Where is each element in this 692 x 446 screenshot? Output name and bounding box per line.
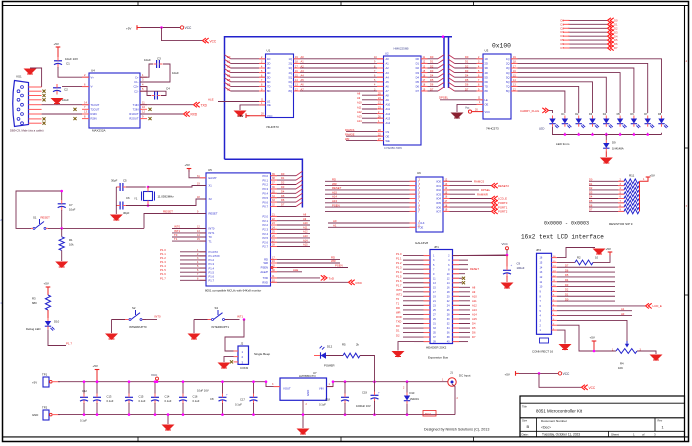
power +5V to U1 VCC pin	[238, 113, 266, 119]
svg-text:3D: 3D	[267, 66, 270, 70]
svg-text:D3: D3	[281, 185, 285, 189]
svg-text:C2+: C2+	[133, 85, 138, 89]
svg-text:10: 10	[595, 256, 599, 260]
svg-text:D6: D6	[561, 42, 565, 46]
svg-text:DC2: DC2	[425, 412, 431, 416]
svg-text:C6: C6	[126, 196, 130, 200]
ground at U3 OE maroon	[451, 113, 464, 120]
resistor R1	[59, 228, 74, 261]
off-page connector VCC	[203, 38, 217, 43]
svg-text:D12: D12	[327, 344, 333, 348]
wire LCD_E	[557, 303, 662, 308]
wire pot to ground	[637, 351, 656, 354]
U6 left wires	[325, 178, 421, 228]
wire U3 OE to ground	[457, 101, 483, 112]
svg-text:1D: 1D	[267, 57, 270, 61]
svg-text:Title: Title	[522, 404, 527, 408]
LED D0 carry	[549, 116, 559, 129]
svg-text:0.1uF: 0.1uF	[319, 402, 326, 406]
svg-text:WR: WR	[264, 261, 269, 265]
svg-text:R2: R2	[577, 256, 581, 260]
svg-text:1N4148A: 1N4148A	[612, 146, 624, 150]
svg-text:RESET: RESET	[470, 267, 479, 271]
svg-text:VOUT: VOUT	[283, 387, 291, 391]
wire GND bottom rail	[58, 414, 455, 416]
junction dot INT1	[243, 318, 246, 321]
VCC pin of U3	[465, 106, 483, 114]
svg-text:A0: A0	[621, 312, 625, 316]
svg-text:1D: 1D	[485, 57, 488, 61]
svg-text:P1.0: P1.0	[396, 252, 402, 256]
power +5V arrow on rail	[93, 364, 100, 382]
resistor R5	[342, 342, 360, 358]
svg-text:10k: 10k	[69, 243, 74, 247]
svg-text:I/O5: I/O5	[436, 201, 441, 205]
svg-text:Single Beep: Single Beep	[254, 352, 271, 356]
svg-text:A11: A11	[386, 107, 391, 111]
svg-text:C1: C1	[66, 62, 70, 66]
wires P2 address	[271, 213, 311, 247]
ground under C9	[501, 283, 514, 290]
svg-text:S1: S1	[33, 216, 37, 220]
JP1 pin39 ground	[392, 342, 415, 358]
svg-text:P1.2: P1.2	[209, 258, 215, 262]
net label ALE and wire to U1 LE	[208, 97, 266, 101]
svg-text:11.0592MHz: 11.0592MHz	[158, 194, 175, 198]
svg-text:RD: RD	[264, 258, 268, 262]
svg-text:8Q: 8Q	[289, 89, 292, 93]
svg-text:U5: U5	[208, 168, 212, 172]
svg-text:U6: U6	[417, 171, 421, 175]
svg-text:D3: D3	[430, 69, 434, 73]
svg-text:OE: OE	[386, 134, 390, 138]
svg-text:INT1: INT1	[237, 314, 244, 318]
svg-text:TP1: TP1	[42, 373, 48, 377]
svg-text:TXD: TXD	[201, 103, 208, 107]
svg-text:D3: D3	[561, 30, 565, 34]
wire RW A0	[557, 312, 632, 316]
svg-text:D0: D0	[430, 55, 434, 59]
svg-text:+5V: +5V	[185, 163, 190, 167]
svg-text:+5V: +5V	[93, 364, 98, 368]
IC U1 74HC573	[266, 49, 294, 130]
svg-text:D1: D1	[227, 60, 231, 64]
svg-text:D0: D0	[565, 297, 569, 301]
svg-text:D1: D1	[281, 176, 285, 180]
svg-text:A4: A4	[386, 75, 390, 79]
svg-text:RESET2: RESET2	[498, 184, 509, 188]
svg-text:D3: D3	[465, 69, 469, 73]
svg-text:T1IN: T1IN	[133, 103, 139, 107]
svg-text:P0.3: P0.3	[262, 187, 268, 191]
svg-text:A6: A6	[301, 83, 305, 87]
svg-text:A12: A12	[357, 110, 362, 114]
svg-text:D6: D6	[430, 83, 434, 87]
svg-text:Sheet: Sheet	[611, 433, 619, 437]
connector VS1 DB9	[10, 75, 44, 133]
svg-text:WE: WE	[386, 139, 390, 143]
svg-text:P2.2: P2.2	[262, 223, 268, 227]
svg-text:X2: X2	[209, 197, 213, 201]
svg-text:+5V: +5V	[606, 247, 611, 251]
svg-text:10uF: 10uF	[62, 98, 69, 102]
svg-text:30pF: 30pF	[123, 211, 130, 215]
junction dot mid	[538, 372, 541, 375]
svg-text:V-: V-	[91, 85, 94, 89]
LED D10 debug	[26, 318, 60, 331]
svg-text:D7: D7	[281, 203, 285, 207]
U5 right pin names	[260, 174, 268, 285]
wire T1IN to TXD	[140, 104, 193, 106]
svg-text:RXD: RXD	[262, 281, 268, 285]
svg-text:D2: D2	[565, 288, 569, 292]
svg-text:+: +	[511, 264, 513, 268]
svg-text:U4: U4	[91, 69, 95, 73]
svg-text:10uF: 10uF	[144, 58, 151, 62]
regulator U7 LM7805	[272, 371, 333, 406]
svg-text:8D: 8D	[485, 89, 488, 93]
off-page connector RXD	[184, 111, 198, 116]
svg-text:A1: A1	[333, 224, 337, 228]
IC U3 74HC573	[483, 43, 511, 131]
svg-text:8D: 8D	[267, 89, 270, 93]
power +5V at EA	[185, 163, 192, 172]
resistor R3	[32, 288, 51, 318]
svg-text:P1.7: P1.7	[209, 278, 215, 282]
svg-text:+: +	[226, 393, 228, 397]
svg-text:A8: A8	[472, 285, 476, 289]
svg-text:TxD: TxD	[329, 276, 335, 280]
capacitor C17	[235, 380, 258, 416]
net flag DC2	[423, 411, 436, 417]
svg-text:A2: A2	[301, 64, 305, 68]
svg-text:U1: U1	[267, 49, 271, 53]
net label DPSEL wire to U3 LE	[439, 96, 483, 100]
svg-text:A3: A3	[386, 71, 390, 75]
svg-text:POWER: POWER	[324, 364, 335, 368]
ground at pot	[650, 355, 663, 362]
svg-text:D0: D0	[465, 55, 469, 59]
capacitor C1	[54, 48, 78, 68]
ground at CON3	[218, 363, 231, 370]
svg-text:P1.0/T2: P1.0/T2	[209, 250, 219, 254]
svg-text:T1: T1	[209, 239, 213, 243]
svg-text:RAMOE: RAMOE	[345, 133, 355, 137]
svg-text:+5V: +5V	[650, 174, 655, 178]
svg-text:8Q: 8Q	[506, 89, 509, 93]
svg-text:I/O4: I/O4	[436, 197, 441, 201]
svg-text:P1.6: P1.6	[209, 274, 215, 278]
svg-text:C16: C16	[193, 395, 198, 399]
svg-text:MAX232A: MAX232A	[92, 129, 106, 133]
svg-text:P1.7: P1.7	[160, 276, 166, 280]
svg-text:X1: X1	[209, 184, 213, 188]
svg-text:+5V: +5V	[126, 27, 131, 31]
svg-text:4Q: 4Q	[289, 71, 292, 75]
svg-text:680: 680	[32, 301, 37, 305]
svg-text:Vcc: Vcc	[465, 106, 470, 110]
junction dots rail	[96, 380, 268, 383]
test point TP1	[32, 373, 60, 387]
crystal circuit Y1	[111, 179, 206, 215]
svg-text:VCC: VCC	[502, 242, 509, 246]
junction dot VCC node	[506, 254, 509, 257]
svg-text:D5: D5	[589, 199, 593, 203]
ground under crystal	[110, 215, 123, 222]
svg-text:T2IN: T2IN	[133, 107, 139, 111]
svg-text:TXD: TXD	[263, 276, 268, 280]
no-connect X on T2OUT/R2IN	[73, 108, 151, 120]
U5 left pin stubs+numbers	[197, 175, 206, 280]
ground at S2	[105, 320, 118, 341]
svg-text:T0: T0	[396, 297, 400, 301]
svg-text:D2: D2	[465, 64, 469, 68]
svg-text:T0: T0	[209, 235, 213, 239]
svg-text:PSEN: PSEN	[261, 266, 268, 270]
wire T1OUT DB9 to U4	[42, 104, 89, 106]
svg-text:A14: A14	[303, 238, 308, 242]
wire +5V top rail	[58, 382, 280, 387]
wires P1.0-P1.7	[160, 248, 206, 280]
svg-text:10K: 10K	[618, 366, 623, 370]
svg-text:D3: D3	[614, 30, 618, 34]
svg-text:D1: D1	[589, 182, 593, 186]
svg-text:V+: V+	[91, 75, 95, 79]
svg-text:RXD: RXD	[396, 315, 402, 319]
svg-text:WR: WR	[396, 311, 401, 315]
wire C1 to V+	[58, 67, 89, 77]
DB9 pin stubs and no-connects	[29, 87, 46, 125]
svg-text:100uF: 100uF	[517, 266, 525, 270]
wire R1IN DB9 to U4	[42, 113, 89, 115]
svg-text:U2: U2	[385, 52, 389, 56]
svg-text:C7: C7	[69, 203, 73, 207]
wire R5 to rail	[360, 356, 375, 382]
wire LCD pin16 to ground	[557, 248, 595, 258]
svg-text:D2: D2	[396, 333, 400, 337]
svg-text:A13: A13	[357, 115, 362, 119]
svg-text:A13: A13	[472, 308, 477, 312]
svg-text:DC Input: DC Input	[459, 374, 471, 378]
off-page TxD	[321, 275, 335, 280]
connector CON3 Single Beep	[234, 342, 271, 370]
svg-text:0.1uF: 0.1uF	[139, 399, 146, 403]
wire VIN rail	[327, 382, 449, 387]
wires P0 to bus	[271, 171, 303, 206]
svg-text:DPSEL: DPSEL	[439, 96, 449, 100]
potentiometer R4	[612, 341, 642, 370]
connector JP4 LCD	[532, 248, 557, 353]
svg-text:Rev: Rev	[658, 419, 663, 423]
svg-text:A7: A7	[386, 89, 390, 93]
svg-text:D10: D10	[54, 320, 60, 324]
bus entries U3 left	[449, 55, 455, 91]
svg-text:A9: A9	[303, 217, 307, 221]
svg-text:10uF 16V: 10uF 16V	[197, 389, 209, 393]
svg-text:A6: A6	[386, 85, 390, 89]
svg-text:7Q: 7Q	[289, 85, 292, 89]
svg-text:R1IN: R1IN	[91, 112, 97, 116]
wire to VCC off-page mid	[539, 373, 581, 387]
svg-text:C5: C5	[123, 179, 127, 183]
svg-text:5D: 5D	[267, 75, 270, 79]
svg-text:0.1uF: 0.1uF	[193, 399, 200, 403]
svg-text:D9: D9	[612, 141, 616, 145]
svg-text:C19: C19	[362, 390, 367, 394]
svg-text:A1: A1	[621, 307, 625, 311]
svg-text:HM62256B: HM62256B	[394, 47, 409, 51]
wire D10 to P1.7	[48, 330, 72, 346]
svg-text:D4: D4	[561, 34, 565, 38]
svg-text:30pF: 30pF	[111, 179, 118, 183]
wire EA/VP	[189, 170, 206, 178]
svg-text:D4: D4	[227, 74, 231, 78]
svg-text:4Q: 4Q	[506, 71, 509, 75]
resistor pack R11	[589, 174, 655, 214]
power symbol +5V at C1	[54, 42, 61, 51]
switch S2 INTERRUPT0	[112, 306, 162, 329]
svg-text:D13: D13	[410, 391, 415, 395]
svg-text:D1: D1	[465, 60, 469, 64]
svg-text:D7: D7	[565, 264, 569, 268]
svg-text:I/O3: I/O3	[436, 192, 441, 196]
title block text Size/Doc/Rev	[522, 419, 664, 430]
bus data D0-D7 blue	[225, 37, 453, 208]
title block text Date/Sheet	[522, 433, 657, 437]
svg-text:D7: D7	[472, 335, 476, 339]
svg-text:D0: D0	[561, 18, 565, 22]
svg-text:INT1: INT1	[396, 293, 402, 297]
power VCC on rail	[151, 373, 159, 382]
svg-text:3Q: 3Q	[289, 66, 292, 70]
svg-text:D1: D1	[561, 22, 565, 26]
capacitor C2 loop	[140, 57, 179, 83]
off-page connector TXD	[194, 102, 208, 107]
net label CARRY_FLAG	[520, 108, 553, 113]
svg-text:D5: D5	[561, 38, 565, 42]
svg-text:D0: D0	[396, 324, 400, 328]
resistor R2 wire	[557, 253, 610, 265]
svg-text:D5: D5	[416, 80, 420, 84]
svg-text:P2.1: P2.1	[262, 219, 268, 223]
wire JP1 pin2 to VCC node	[453, 254, 508, 257]
power +5V at pot	[590, 336, 597, 353]
svg-text:CONN RECT 16: CONN RECT 16	[532, 349, 554, 353]
svg-text:C17: C17	[240, 398, 245, 402]
svg-text:P1.2: P1.2	[396, 261, 402, 265]
svg-text:RAMWR: RAMWR	[477, 192, 488, 196]
svg-text:P2.4: P2.4	[262, 232, 268, 236]
svg-text:A15: A15	[472, 317, 477, 321]
LEDs D1-D8 row	[561, 113, 668, 128]
svg-text:3D: 3D	[485, 66, 488, 70]
svg-text:OE: OE	[267, 103, 271, 107]
svg-text:A13: A13	[303, 234, 308, 238]
svg-text:C12: C12	[82, 389, 87, 393]
svg-text:P1.3: P1.3	[209, 262, 215, 266]
svg-text:P2.5: P2.5	[262, 236, 268, 240]
svg-text:R2IN: R2IN	[91, 117, 97, 121]
svg-text:D5: D5	[565, 273, 569, 277]
svg-text:C4: C4	[166, 87, 170, 91]
wires U1 right to U2 A0-A7	[294, 55, 384, 91]
wire CON3 pin2 to ground	[224, 357, 234, 362]
svg-text:LE: LE	[485, 98, 488, 102]
svg-text:D0: D0	[589, 178, 593, 182]
svg-text:D7: D7	[416, 89, 420, 93]
junction dot on bus	[442, 35, 445, 38]
svg-text:A1: A1	[386, 62, 390, 66]
svg-text:D2: D2	[430, 64, 434, 68]
wires U1 left D0-D7	[227, 55, 266, 91]
svg-text:+5V: +5V	[590, 336, 595, 340]
svg-text:A12: A12	[386, 112, 391, 116]
svg-text:8051 Microcontroller Kit: 8051 Microcontroller Kit	[536, 409, 583, 414]
svg-text:0.1uF: 0.1uF	[165, 399, 172, 403]
capacitor C19 1000uF	[356, 382, 380, 415]
svg-text:A5: A5	[386, 80, 390, 84]
svg-text:T1: T1	[174, 237, 178, 241]
svg-text:D7: D7	[227, 87, 231, 91]
title block frame	[520, 396, 685, 437]
svg-text:CY62256-70PC: CY62256-70PC	[384, 146, 402, 150]
no-connect CON3 pin3	[230, 360, 233, 363]
svg-text:A14: A14	[472, 312, 477, 316]
svg-text:WR: WR	[331, 259, 336, 263]
svg-text:0x0000 - 0x0003: 0x0000 - 0x0003	[544, 221, 589, 227]
svg-text:A3: A3	[301, 69, 305, 73]
ground at S3	[188, 320, 201, 341]
svg-text:D5: D5	[614, 38, 618, 42]
svg-text:T2OUT: T2OUT	[91, 107, 100, 111]
svg-text:D1: D1	[396, 329, 400, 333]
svg-text:D3: D3	[565, 283, 569, 287]
svg-text:A8: A8	[303, 213, 307, 217]
svg-text:D7: D7	[614, 46, 618, 50]
svg-text:VCC: VCC	[210, 39, 217, 43]
svg-text:D1: D1	[565, 293, 569, 297]
svg-text:J1: J1	[450, 371, 453, 375]
svg-text:4D: 4D	[267, 71, 270, 75]
svg-text:B: B	[527, 424, 530, 429]
svg-text:A10: A10	[472, 294, 477, 298]
svg-text:P2.7: P2.7	[262, 245, 268, 249]
svg-text:LED 3mm: LED 3mm	[556, 142, 570, 146]
svg-text:D6: D6	[565, 268, 569, 272]
svg-text:6Q: 6Q	[289, 80, 292, 84]
svg-text:A0: A0	[386, 57, 390, 61]
capacitor C8 10uF	[197, 380, 228, 416]
svg-text:VS1: VS1	[16, 75, 22, 79]
svg-text:5D: 5D	[485, 75, 488, 79]
svg-text:JP1: JP1	[434, 245, 439, 249]
svg-text:C8: C8	[210, 397, 214, 401]
svg-text:D7: D7	[430, 87, 434, 91]
svg-text:P0.7: P0.7	[262, 205, 268, 209]
svg-text:VIN: VIN	[319, 387, 324, 391]
svg-text:74HC573: 74HC573	[266, 125, 279, 129]
svg-text:RESISTOR SIP 9: RESISTOR SIP 9	[609, 222, 633, 226]
svg-text:VCC: VCC	[485, 110, 491, 114]
svg-text:A10: A10	[357, 101, 362, 105]
wire contrast to pot	[557, 320, 627, 346]
svg-text:6D: 6D	[485, 80, 488, 84]
U4 pin numbers	[84, 73, 145, 118]
svg-text:RAMCS: RAMCS	[345, 128, 355, 132]
svg-text:ALE: ALE	[208, 97, 214, 101]
power VCC at LCD	[502, 242, 509, 255]
svg-text:D0: D0	[416, 57, 420, 61]
